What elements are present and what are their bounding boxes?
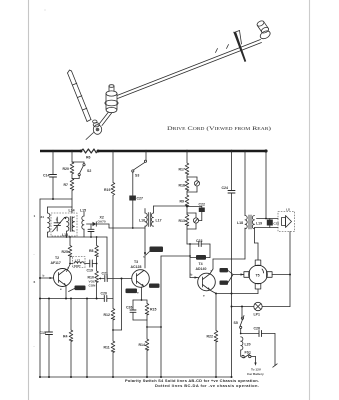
svg-text:C20: C20 bbox=[101, 292, 107, 296]
resistor R20 bbox=[63, 151, 74, 174]
wire left rail bbox=[39, 199, 41, 377]
wire T5 top tab bbox=[255, 228, 259, 261]
svg-text:R20: R20 bbox=[63, 167, 69, 171]
wire bbox=[147, 326, 161, 328]
svg-text:L17: L17 bbox=[156, 219, 162, 223]
oscillator coil box L13 L14 bbox=[51, 209, 77, 238]
supply bus (HT rail) bbox=[40, 150, 81, 153]
wire bbox=[48, 206, 73, 208]
svg-text:e: e bbox=[137, 291, 139, 295]
chassis return bbox=[273, 334, 277, 368]
svg-text:34: 34 bbox=[41, 215, 45, 219]
node bus junctions bbox=[80, 150, 83, 153]
test point tag bbox=[149, 284, 160, 288]
svg-text:R4: R4 bbox=[63, 335, 68, 339]
svg-text:C28: C28 bbox=[254, 327, 260, 331]
cord anchor tick bbox=[227, 45, 229, 49]
page right edge bbox=[309, 0, 311, 400]
capacitor C27 bbox=[129, 172, 143, 229]
wire T5 bottom tab bbox=[216, 289, 258, 295]
svg-text:R9: R9 bbox=[180, 200, 185, 204]
resistor R7 bbox=[64, 174, 74, 213]
svg-text:R11: R11 bbox=[104, 346, 110, 350]
drive shaft rod (tuning gang spindle, left) bbox=[68, 70, 92, 122]
svg-text:R13: R13 bbox=[179, 219, 185, 223]
output transformer L18 L19 bbox=[237, 151, 262, 229]
potentiometer R10 volume control bbox=[88, 271, 105, 299]
wire T3 collector bbox=[144, 226, 146, 268]
page left edge bbox=[28, 0, 30, 400]
test point TP3 bbox=[126, 289, 138, 294]
resistor R22 bbox=[207, 294, 218, 379]
svg-text:AC128: AC128 bbox=[131, 265, 142, 269]
svg-text:R8: R8 bbox=[89, 249, 94, 253]
svg-text:R14: R14 bbox=[139, 343, 145, 347]
svg-text:C19: C19 bbox=[87, 269, 93, 273]
wire from bus end bbox=[265, 151, 267, 219]
resistor R17 bbox=[179, 151, 189, 175]
svg-text:AD140: AD140 bbox=[196, 267, 207, 271]
wire speaker top bbox=[257, 218, 279, 220]
cord hook bbox=[216, 49, 218, 53]
transistor T4 AD140 bbox=[196, 262, 216, 298]
wire right rail bbox=[289, 232, 291, 307]
svg-text:R25: R25 bbox=[62, 250, 68, 254]
svg-text:Car Battery: Car Battery bbox=[247, 372, 264, 376]
svg-text:C24: C24 bbox=[222, 186, 228, 190]
svg-text:C21: C21 bbox=[102, 272, 108, 276]
drive cord run bbox=[117, 40, 261, 96]
resistor R18 bbox=[179, 175, 189, 191]
wire bbox=[108, 224, 110, 228]
svg-text:C15: C15 bbox=[40, 331, 46, 335]
switch S5 bbox=[234, 306, 245, 335]
resistor R11 bbox=[104, 341, 115, 377]
svg-text:LP1: LP1 bbox=[254, 313, 260, 317]
speck bbox=[45, 10, 46, 11]
wire bbox=[160, 256, 190, 377]
svg-text:S2: S2 bbox=[87, 169, 91, 173]
svg-text:OA70: OA70 bbox=[98, 220, 106, 224]
svg-text:FS1: FS1 bbox=[245, 351, 251, 355]
svg-text:R19: R19 bbox=[104, 188, 110, 192]
svg-text:CON: CON bbox=[89, 283, 97, 287]
test point TP2 bbox=[69, 286, 86, 292]
cord tension spring drum bbox=[86, 120, 102, 140]
chassis bus (bottom rail) bbox=[39, 376, 232, 378]
loudspeaker box bbox=[278, 208, 295, 232]
svg-text:R6: R6 bbox=[86, 156, 91, 160]
wire bbox=[109, 227, 145, 229]
svg-text:AF117: AF117 bbox=[51, 261, 61, 265]
svg-text:b: b bbox=[191, 273, 193, 277]
emitter RC network C26 R15 bbox=[126, 300, 156, 320]
capacitor C15 bbox=[40, 299, 53, 378]
svg-text:L18: L18 bbox=[237, 221, 243, 225]
fuse FS1 bbox=[242, 351, 256, 359]
wire T5 base bbox=[233, 273, 244, 275]
svg-text:Drive Cord (Viewed from Rear): Drive Cord (Viewed from Rear) bbox=[167, 125, 271, 132]
resistor R8 bbox=[89, 237, 98, 271]
jockey pulley bbox=[105, 85, 118, 113]
wire T4 base bbox=[190, 273, 198, 279]
transistor T5 output bbox=[244, 260, 272, 289]
capacitor C24 bbox=[222, 151, 236, 378]
capacitor C25 bbox=[267, 219, 280, 228]
svg-text:L14: L14 bbox=[69, 209, 75, 213]
wire bbox=[86, 299, 88, 378]
battery lead arrow bbox=[247, 357, 264, 377]
svg-text:LS: LS bbox=[286, 208, 290, 212]
wire T4 emitter bbox=[210, 290, 217, 295]
svg-text:c: c bbox=[68, 266, 70, 270]
wire T2 base bbox=[40, 277, 54, 279]
coil L20 bbox=[241, 337, 251, 357]
switch S3 bbox=[132, 151, 147, 178]
svg-text:1: 1 bbox=[34, 214, 36, 218]
resistor R14 bbox=[139, 320, 149, 377]
svg-text:R18: R18 bbox=[179, 184, 185, 188]
transistor T2 AF117 bbox=[51, 256, 72, 291]
thermistor X3 bbox=[187, 177, 200, 192]
antenna coil bbox=[41, 207, 50, 237]
capacitor C28 bbox=[241, 327, 275, 337]
diode X4 bbox=[187, 213, 199, 229]
test point TP5 bbox=[220, 268, 234, 275]
svg-text:C25: C25 bbox=[273, 222, 279, 226]
wire h237 bbox=[48, 236, 108, 238]
svg-text:-: - bbox=[34, 344, 35, 348]
resistor R9 bbox=[180, 191, 189, 208]
svg-text:e: e bbox=[203, 294, 205, 298]
IF transformer L16 L17 bbox=[139, 206, 162, 227]
tuning control spindle (right end) bbox=[256, 20, 271, 40]
svg-text:T3: T3 bbox=[134, 260, 138, 264]
lamp LP1 bbox=[232, 302, 291, 316]
svg-text:L20: L20 bbox=[245, 343, 251, 347]
svg-text:L17: L17 bbox=[75, 259, 81, 263]
capacitor C16 bbox=[88, 224, 94, 237]
svg-text:6: 6 bbox=[34, 280, 36, 284]
coil L17 part box bbox=[69, 257, 85, 268]
svg-text:R17: R17 bbox=[179, 168, 185, 172]
svg-text:T4: T4 bbox=[199, 262, 203, 266]
wire elbow bbox=[112, 279, 121, 331]
resistor R12 bbox=[104, 309, 115, 342]
resistor R25 bbox=[62, 237, 72, 272]
svg-text:L19: L19 bbox=[256, 222, 262, 226]
wire bbox=[154, 205, 188, 207]
svg-text:C14: C14 bbox=[43, 174, 49, 178]
cord from pulley to drum bbox=[100, 112, 109, 124]
svg-text:e: e bbox=[60, 287, 62, 291]
svg-text:S5: S5 bbox=[234, 321, 238, 325]
resistor R4 bbox=[63, 299, 73, 378]
svg-text:-: - bbox=[34, 252, 35, 256]
svg-text:PART: PART bbox=[74, 264, 81, 268]
svg-text:b: b bbox=[43, 274, 45, 278]
resistor R19 bbox=[104, 151, 115, 309]
resistor R13 bbox=[179, 207, 189, 245]
switch S2 bbox=[72, 162, 91, 179]
tag label bbox=[146, 247, 163, 256]
coil L15 bbox=[80, 209, 86, 238]
wire T3 emitter bbox=[141, 287, 143, 301]
svg-text:C23: C23 bbox=[196, 239, 202, 243]
svg-text:C22: C22 bbox=[199, 203, 205, 207]
svg-text:T5: T5 bbox=[256, 273, 260, 277]
svg-text:S3: S3 bbox=[135, 174, 139, 178]
svg-text:T2: T2 bbox=[55, 256, 59, 260]
wire T4 collector to L18 bbox=[210, 228, 245, 274]
dial pointer bbox=[233, 32, 246, 62]
svg-text:L16: L16 bbox=[139, 219, 145, 223]
svg-text:To 12V: To 12V bbox=[251, 368, 262, 372]
wire bbox=[98, 150, 266, 153]
wire bbox=[40, 198, 72, 200]
wire T2 emitter bbox=[65, 286, 67, 299]
svg-text:R7: R7 bbox=[64, 183, 69, 187]
svg-text:C27: C27 bbox=[137, 197, 143, 201]
resistor R6 bbox=[81, 149, 98, 153]
wire AGC line bbox=[39, 298, 113, 300]
transistor T3 AC128 bbox=[131, 255, 150, 295]
svg-text:c: c bbox=[143, 255, 145, 259]
svg-text:Dotted lines BC-DA for -ve cha: Dotted lines BC-DA for -ve chassis opera… bbox=[155, 383, 259, 388]
svg-text:R22: R22 bbox=[207, 335, 213, 339]
svg-text:R15: R15 bbox=[150, 308, 156, 312]
capacitor C22 bbox=[187, 203, 205, 221]
svg-text:C26: C26 bbox=[126, 306, 132, 310]
bias network C23 R16 bbox=[187, 239, 210, 278]
svg-text:L15: L15 bbox=[80, 209, 86, 213]
svg-text:R12: R12 bbox=[104, 313, 110, 317]
capacitor C14 bbox=[43, 151, 57, 199]
capacitor C19 bbox=[85, 260, 98, 273]
wire speaker bottom bbox=[255, 227, 279, 229]
diode X2 OA70 bbox=[87, 216, 110, 227]
capacitor C20 bbox=[101, 292, 107, 302]
test point TP6 bbox=[220, 275, 234, 285]
node bbox=[52, 198, 54, 200]
wire T5 right tab bbox=[272, 274, 291, 276]
wire bbox=[106, 237, 108, 279]
capacitor C21 bbox=[102, 272, 132, 282]
svg-text:L13: L13 bbox=[62, 233, 68, 237]
